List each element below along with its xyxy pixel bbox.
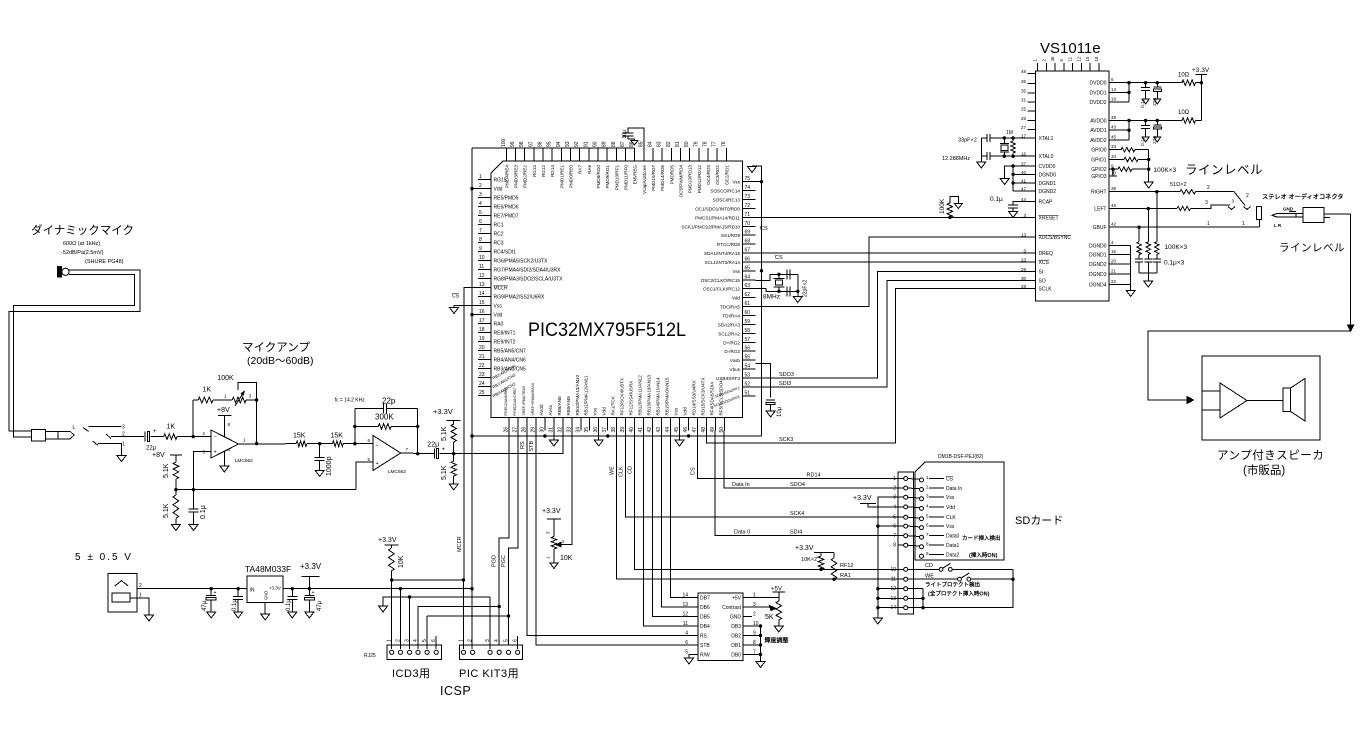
svg-text:47μ: 47μ [317, 600, 323, 611]
U2 pin 79 top stub [698, 148, 700, 161]
jack contact 3 hook [1228, 207, 1235, 210]
svg-text:+: + [153, 429, 157, 435]
svg-text:SO: SO [1039, 279, 1046, 285]
wire pin55 Vusb branch [756, 364, 771, 398]
svg-text:600Ω (at 1kHz): 600Ω (at 1kHz) [63, 241, 100, 247]
U4 right pin 46 LEFT [1109, 208, 1117, 210]
ground C2 [189, 525, 198, 531]
svg-text:SDA2/RA3: SDA2/RA3 [718, 322, 741, 327]
svg-text:11: 11 [891, 577, 896, 583]
U2 pin 83 top stub [661, 148, 663, 161]
CN3 left pin 6 STB [689, 644, 698, 646]
svg-text:74: 74 [745, 185, 751, 191]
svg-text:DGND1: DGND1 [1039, 181, 1057, 187]
wire DB4 pin41 to LCD [644, 431, 699, 626]
U2 pin 29 bottom stub [535, 418, 537, 431]
svg-text:22pF×2: 22pF×2 [803, 280, 809, 297]
ground VR2 [550, 563, 558, 569]
ground J2 [145, 615, 154, 621]
wire amp to driver [1247, 400, 1283, 402]
ground op1 [220, 466, 229, 472]
svg-text:SCL1/INT3/RA14: SCL1/INT3/RA14 [705, 260, 741, 265]
U4 left pin 26 nc [1028, 119, 1036, 121]
svg-text:CS: CS [946, 477, 954, 483]
U2 pin 80 top stub [689, 148, 691, 161]
svg-text:+: + [214, 590, 217, 596]
svg-text:GPIO3: GPIO3 [1091, 174, 1107, 180]
wire GBUF to jack sleeve [1259, 220, 1261, 228]
IC U3 TA48M033F regulator body [247, 576, 283, 603]
wire feedback row left segment [193, 399, 198, 401]
svg-text:6: 6 [431, 639, 437, 642]
resistor R14 1M xtal [1011, 141, 1015, 153]
svg-text:GPIO1: GPIO1 [1091, 158, 1107, 164]
svg-text:1M: 1M [1006, 130, 1013, 136]
wire SD gnd vertical [878, 497, 898, 618]
wire CD pin40 to SD [635, 431, 898, 570]
svg-text:MCLR: MCLR [494, 286, 509, 292]
plug P1 tip [64, 431, 74, 439]
svg-text:ENVREG: ENVREG [633, 165, 638, 185]
wire PICKIT pin3 gnd drop [489, 597, 491, 649]
svg-text:14: 14 [1111, 87, 1117, 92]
wire DB6 pin43 to LCD [662, 431, 699, 607]
ground C19 [1142, 137, 1149, 142]
svg-text:+3.3V: +3.3V [300, 562, 322, 571]
CN4 pin 8 hole [904, 543, 908, 547]
speaker amp triangle [1220, 383, 1247, 418]
svg-text:4: 4 [685, 631, 688, 637]
U4 left pin 35 nc [1028, 92, 1036, 94]
svg-text:10Ω: 10Ω [1178, 110, 1190, 116]
U2 pin 72 right stub [743, 207, 756, 209]
svg-text:1000p: 1000p [326, 456, 333, 476]
U2 pin 75 right stub [743, 181, 756, 183]
U4 left pin 29 SI [1028, 271, 1036, 273]
U2 pin 12 left stub [478, 278, 491, 280]
svg-text:24: 24 [479, 381, 485, 387]
U2 pin 28 bottom stub [526, 418, 528, 431]
svg-text:PMCS1/PMA14/RD11: PMCS1/PMA14/RD11 [695, 215, 740, 220]
svg-text:fc = 14.2 KHz: fc = 14.2 KHz [335, 398, 366, 404]
svg-text:L R: L R [1274, 223, 1282, 228]
wire SD 12-14 tie [908, 588, 923, 590]
svg-text:46: 46 [1111, 203, 1117, 208]
svg-text:+3.3V: +3.3V [433, 407, 453, 416]
svg-text:+3.3V: +3.3V [853, 495, 872, 502]
U2 pin 91 top stub [588, 148, 590, 161]
svg-text:10: 10 [890, 567, 896, 573]
wire +3.3V left rail of U2 [472, 188, 478, 190]
U2 pin 18 left stub [478, 332, 491, 334]
svg-text:SDカード: SDカード [1015, 514, 1063, 527]
svg-text:輝度調整: 輝度調整 [764, 637, 790, 645]
wire GPIO3 join GPIO2 [1113, 169, 1117, 176]
wire MCLR from pin13 [464, 288, 478, 580]
CN4 pin 4 hole [904, 505, 908, 509]
svg-text:VS1011e: VS1011e [1040, 40, 1101, 57]
jack socket sleeve [1257, 206, 1262, 219]
svg-text:5.1K: 5.1K [441, 465, 448, 480]
svg-text:SDI3: SDI3 [779, 381, 791, 387]
svg-text:77: 77 [712, 141, 718, 147]
U2 pin 13 left stub [478, 287, 491, 289]
U2 pin 85 top stub [643, 148, 645, 161]
svg-text:0.1μ: 0.1μ [232, 599, 238, 611]
resistor R19 GPIO2 100K [1117, 168, 1118, 170]
wire R15 to +3.3V [1196, 82, 1202, 84]
svg-text:59: 59 [745, 319, 751, 325]
svg-text:+3.3V: +3.3V [1192, 67, 1210, 74]
svg-text:+3.3V: +3.3V [795, 545, 814, 552]
ground SD [873, 618, 882, 624]
svg-text:+8V: +8V [152, 452, 165, 459]
svg-text:5.1K: 5.1K [163, 503, 170, 518]
connector CN3 LCD body [698, 593, 743, 660]
U2 pin 46 bottom stub [687, 418, 689, 431]
svg-text:23: 23 [479, 372, 485, 378]
svg-text:10K: 10K [398, 555, 405, 568]
svg-text:37: 37 [602, 427, 608, 433]
svg-text:PMDRD5: PMDRD5 [669, 165, 674, 185]
U2 pin 65 right stub [743, 270, 756, 272]
U2 pin 34 bottom stub [580, 418, 582, 431]
capacitor C15 33pF bottom [986, 152, 988, 160]
svg-text:ICD3用: ICD3用 [392, 668, 431, 680]
plug P1 shaft [45, 430, 64, 432]
U4 top pin 18 [1098, 63, 1100, 71]
svg-text:USBID/RF3: USBID/RF3 [716, 376, 740, 381]
CN4 pin 5 hole [904, 515, 908, 519]
wire PGC pin27 to ICSP [509, 431, 519, 645]
svg-text:43: 43 [1111, 125, 1117, 130]
svg-text:53: 53 [745, 372, 751, 378]
svg-text:RD15/SCK3/U4TX: RD15/SCK3/U4TX [700, 377, 705, 415]
wire CS pin47 to SD pin1 [697, 431, 898, 479]
wire R3 to bias rail [175, 479, 177, 490]
svg-text:Data1: Data1 [946, 543, 960, 549]
svg-text:Data0: Data0 [946, 534, 960, 540]
U2 pin 9 left stub [478, 251, 491, 253]
U2 pin 39 bottom stub [625, 418, 627, 431]
svg-text:RTCC/RD8: RTCC/RD8 [717, 242, 741, 247]
U2 pin 52 right stub [743, 386, 756, 388]
power bar +3.3V analog [447, 420, 461, 422]
SD card contact 1 CS [920, 478, 924, 482]
wire PICKIT pin1 MCLR drop [463, 580, 465, 649]
svg-text:10: 10 [479, 255, 485, 261]
speaker driver [1283, 388, 1291, 412]
U4 left pin 13 XDCS/BSYNC [1028, 236, 1036, 238]
ground C13 [305, 612, 314, 618]
jack J1 contact 1 [93, 441, 98, 445]
wire Vcap pin85 to C6 [628, 128, 644, 148]
svg-text:DB6: DB6 [700, 605, 710, 611]
U4 left pin 17 XTAL1 [1028, 137, 1036, 139]
wire R4 to ground [175, 518, 177, 524]
svg-text:ラインレベル: ラインレベル [1185, 163, 1263, 177]
U2 pin 57 right stub [743, 341, 756, 343]
svg-text:(挿入時ON): (挿入時ON) [969, 551, 998, 559]
svg-text:RF4/SDA5/SDI4: RF4/SDA5/SDI4 [709, 382, 714, 416]
U2 pin 51 right stub [743, 395, 756, 397]
svg-text:RF5/SCL5/SDO4: RF5/SCL5/SDO4 [718, 380, 723, 416]
U2 pin 71 right stub [743, 216, 756, 218]
wire GND row ICSP [383, 597, 490, 606]
wire GPIO common to ground [1148, 150, 1150, 182]
U2 pin 81 top stub [680, 148, 682, 161]
svg-text:AVDD2: AVDD2 [1090, 138, 1107, 144]
svg-text:Vss: Vss [494, 304, 503, 310]
wire ICD3 pin2 +3.3V drop [400, 589, 402, 649]
svg-text:15: 15 [1085, 56, 1090, 62]
svg-text:Vss: Vss [946, 495, 955, 501]
svg-text:DGND0: DGND0 [1039, 172, 1057, 178]
svg-text:8: 8 [479, 237, 482, 243]
svg-text:XCS: XCS [1039, 260, 1050, 266]
wire MCLR row [391, 579, 463, 581]
U4 right pin 14 DVDD1 [1109, 91, 1117, 93]
U4 left pin 27 nc [1028, 128, 1036, 130]
svg-text:(全プロテクト挿入時ON): (全プロテクト挿入時ON) [928, 590, 990, 598]
wire VR3 to ground [778, 620, 780, 626]
svg-text:ICSP: ICSP [440, 684, 471, 698]
U2 pin 15 left stub [478, 305, 491, 307]
wire ICD3 pin1 MCLR drop [391, 580, 393, 649]
capacitor C22 0.1u LEFT [1147, 255, 1149, 259]
svg-text:1: 1 [1207, 221, 1210, 227]
svg-text:51Ω×2: 51Ω×2 [1170, 182, 1187, 188]
svg-text:OC3/RD2: OC3/RD2 [715, 165, 720, 185]
svg-text:PMD0/RE0: PMD0/RE0 [568, 165, 573, 188]
svg-text:5.1K: 5.1K [441, 426, 448, 441]
svg-text:48: 48 [1021, 69, 1027, 74]
CN3 left pin 13 DB6 [689, 606, 698, 608]
U2 pin 35 bottom stub [589, 418, 591, 431]
U4 left pin 37 CVDD0 [1028, 165, 1036, 167]
svg-text:Vdd: Vdd [602, 407, 607, 416]
U2 pin 84 top stub [652, 148, 654, 161]
svg-text:2: 2 [1246, 193, 1249, 199]
ground C3 [315, 471, 324, 477]
connector CN4 SD body [898, 472, 914, 614]
U4 left pin 40 DGND0 [1028, 173, 1036, 175]
resistor R7 300K feedback [355, 425, 379, 427]
svg-text:100K×3: 100K×3 [1165, 244, 1188, 251]
svg-text:RB15/PMA0/AN15: RB15/PMA0/AN15 [664, 377, 669, 415]
svg-text:Data In: Data In [732, 482, 750, 488]
crystal X1 8MHz [774, 277, 785, 279]
U2 pin 53 right stub [743, 377, 756, 379]
svg-text:SOSCO/RC14: SOSCO/RC14 [710, 189, 740, 194]
svg-text:DGND1: DGND1 [1089, 253, 1107, 259]
svg-text:L: L [73, 425, 76, 431]
CN4 pin 3 hole [904, 495, 908, 499]
ground GPIO [1144, 182, 1153, 188]
wire PICKIT pin2 +3.3V drop [471, 589, 473, 649]
svg-text:12: 12 [479, 273, 485, 279]
svg-text:CD: CD [628, 466, 634, 474]
U2 pin 54 right stub [743, 368, 756, 370]
svg-text:1: 1 [459, 639, 465, 642]
ground U3 [261, 614, 270, 620]
CN3 right pin 3 Contrast [743, 606, 752, 608]
U2 pin 17 left stub [478, 323, 491, 325]
svg-text:RG7/PMA4/SDI2/SDA4/U3RX: RG7/PMA4/SDI2/SDA4/U3RX [494, 268, 562, 274]
capacitor C10 47u input [210, 587, 213, 590]
svg-text:96: 96 [537, 141, 543, 147]
wire node A up to feedback [192, 400, 194, 437]
svg-text:1: 1 [139, 593, 142, 599]
svg-text:R/W: R/W [700, 653, 710, 659]
U2 pin 44 bottom stub [669, 418, 671, 431]
svg-text:12.288MHz: 12.288MHz [942, 156, 970, 162]
svg-text:15K: 15K [331, 433, 344, 440]
CN3 right pin 8 DB1 [743, 644, 752, 646]
svg-text:VREF+/PMA6/RA10: VREF+/PMA6/RA10 [531, 383, 535, 415]
resistor R8 5.1K upper [451, 424, 457, 442]
svg-text:SCK4: SCK4 [790, 511, 804, 517]
U4 right pin 45 AVDD2 [1109, 139, 1117, 141]
speaker box SP1 [1202, 356, 1320, 440]
svg-text:RB10/PMA13/AN10: RB10/PMA13/AN10 [575, 374, 580, 415]
wire U3 output [283, 588, 319, 590]
svg-text:42: 42 [1111, 222, 1117, 227]
svg-text:66: 66 [745, 256, 751, 262]
CN1 hole 6 [434, 650, 438, 654]
U2 pin 60 right stub [743, 315, 756, 317]
wire contrast wiper [752, 606, 770, 608]
wire J2 pin2 [137, 588, 247, 590]
svg-text:Contrast: Contrast [722, 605, 742, 611]
wire C5 to audio node [440, 453, 454, 455]
svg-text:Data2: Data2 [946, 553, 960, 559]
J2 inner rect [112, 593, 130, 602]
CN3 left pin 14 DB7 [689, 597, 698, 599]
svg-text:29: 29 [1021, 267, 1027, 272]
svg-text:LMC662: LMC662 [235, 458, 253, 464]
svg-text:27: 27 [1021, 125, 1027, 130]
svg-text:DGND2: DGND2 [1089, 262, 1107, 268]
svg-text:WE: WE [610, 466, 616, 475]
ground DGND [1126, 291, 1135, 297]
svg-text:XTAL0: XTAL0 [1039, 154, 1054, 160]
U2 pin 68 right stub [743, 243, 756, 245]
power arrow for R10 [954, 204, 962, 209]
svg-text:57: 57 [745, 337, 751, 343]
svg-text:AVDD1: AVDD1 [1090, 128, 1107, 134]
U4 top pin 2 [1045, 63, 1047, 71]
wire R22 to jack contact 3 [1191, 205, 1230, 209]
wire C6 to power arrow [628, 136, 635, 140]
U4 top pin 46 [1054, 63, 1056, 71]
svg-text:マイクアンプ: マイクアンプ [242, 341, 310, 354]
svg-text:Vss: Vss [593, 407, 598, 415]
wire CVDD DGND group [1013, 165, 1035, 167]
svg-text:PGED2/AN7/RB7: PGED2/AN7/RB7 [513, 387, 517, 415]
ground VR3 [774, 626, 783, 632]
svg-text:+8V: +8V [217, 407, 230, 414]
svg-text:93: 93 [565, 141, 571, 147]
U2 pin 7 left stub [478, 233, 491, 235]
svg-text:8MHz: 8MHz [763, 294, 780, 301]
wire VR1 wiper bracket [238, 382, 257, 400]
U4 right pin 38 AVDD0 [1109, 120, 1117, 122]
U2 pin 8 left stub [478, 242, 491, 244]
svg-text:DB0: DB0 [731, 653, 741, 659]
svg-text:8: 8 [893, 543, 896, 549]
CN4 pin 7 hole [904, 534, 908, 538]
svg-text:Vdd: Vdd [494, 313, 503, 319]
U4 left pin 31 nc [1028, 101, 1036, 103]
svg-text:4: 4 [413, 639, 419, 642]
U2 pin 38 bottom stub [616, 418, 618, 431]
svg-text:100K×3: 100K×3 [1154, 167, 1177, 174]
U2 pin 86 top stub [634, 148, 636, 161]
svg-text:63: 63 [745, 283, 751, 289]
svg-text:Vdd: Vdd [682, 407, 687, 416]
svg-text:PMD13/RD13: PMD13/RD13 [688, 165, 693, 194]
U2 pin 87 top stub [625, 148, 627, 161]
svg-text:22μ: 22μ [427, 441, 439, 448]
svg-text:AVss: AVss [548, 404, 553, 415]
svg-text:RG13: RG13 [532, 165, 537, 177]
capacitor C17 0.1u DVDD [1145, 83, 1147, 88]
svg-text:PMD8/RG0: PMD8/RG0 [596, 165, 601, 189]
U2 pin 3 left stub [478, 197, 491, 199]
svg-text:PMD10/RF1: PMD10/RF1 [614, 165, 619, 191]
U2 pin 70 right stub [743, 225, 756, 227]
svg-text:RG8/PMA3/SDO2/SCLA/U3TX: RG8/PMA3/SDO2/SCLA/U3TX [494, 277, 564, 283]
wire DB7 pin44 to LCD [671, 431, 699, 598]
SD card contact 5 CLK [920, 517, 924, 521]
svg-text:2: 2 [122, 432, 125, 438]
U2 pin 77 top stub [716, 148, 718, 161]
wire STB pin29 to LCD [536, 431, 698, 645]
capacitor C11 0.1u input [237, 587, 240, 590]
svg-text:LEFT: LEFT [1094, 207, 1106, 213]
resistor R9 5.1K lower [453, 454, 455, 461]
svg-text:(SHURE PG48): (SHURE PG48) [85, 259, 124, 265]
U2 pin 64 right stub [743, 279, 756, 281]
svg-text:10: 10 [1111, 171, 1117, 176]
U2 pin 94 top stub [560, 148, 562, 161]
U2 pin 41 bottom stub [643, 418, 645, 431]
U2 pin 92 top stub [579, 148, 581, 161]
crystal X2 12.288MHz [1000, 143, 1009, 145]
resistor R17 GPIO0 100K [1117, 149, 1121, 151]
svg-text:2: 2 [396, 639, 402, 642]
svg-text:1: 1 [387, 639, 393, 642]
wire R2 to VR1 [213, 399, 232, 401]
U4 top pin 5 [1063, 63, 1065, 71]
svg-text:Vdd: Vdd [732, 296, 741, 301]
capacitor C21 0.1u RIGHT [1156, 255, 1158, 259]
svg-text:OSC2/CLKO/RC15: OSC2/CLKO/RC15 [701, 278, 741, 283]
U2 pin 37 bottom stub [607, 418, 609, 431]
resistor R4 5.1K lower bias [173, 495, 179, 518]
svg-text:12: 12 [682, 612, 688, 618]
wire LEFT output [1109, 208, 1177, 210]
wire feedback right leg [417, 409, 419, 454]
svg-text:RD14: RD14 [807, 473, 821, 479]
svg-text:DB7: DB7 [700, 596, 710, 602]
svg-text:22: 22 [1111, 279, 1117, 284]
svg-text:TDI/RA4: TDI/RA4 [722, 314, 740, 319]
CN3 right pin 10 DB3 [743, 625, 752, 627]
svg-text:DGND0: DGND0 [1089, 244, 1107, 250]
svg-text:33pF×2: 33pF×2 [958, 138, 977, 144]
